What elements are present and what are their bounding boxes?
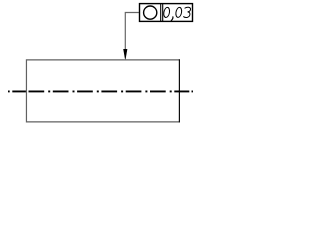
leader arrowhead bbox=[124, 49, 127, 59]
centerline (axis, dash-dot) bbox=[8, 90, 193, 92]
leader line bbox=[125, 13, 139, 51]
frame cell divider (double line) bbox=[161, 4, 163, 22]
tolerance value 0,03 (italic CAD digits) bbox=[163, 7, 190, 20]
part outline right edge bbox=[178, 59, 180, 122]
feature control frame outer box bbox=[140, 4, 193, 22]
part outline (shaft side view) bbox=[26, 60, 179, 122]
circularity (roundness) symbol bbox=[144, 6, 157, 19]
